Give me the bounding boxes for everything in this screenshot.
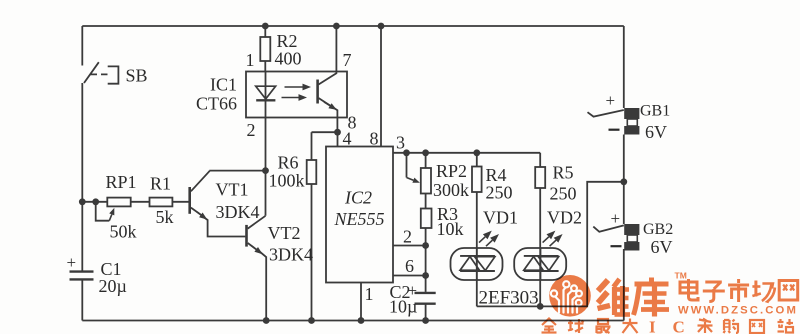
svg-text:8: 8 (370, 129, 379, 149)
svg-text:10µ: 10µ (389, 297, 417, 317)
svg-text:3: 3 (396, 133, 405, 153)
svg-text:IC2: IC2 (344, 188, 372, 208)
svg-text:IC1: IC1 (210, 75, 237, 95)
svg-text:CT66: CT66 (196, 94, 237, 114)
svg-text:6V: 6V (651, 237, 673, 257)
svg-text:7: 7 (343, 50, 352, 70)
svg-text:VT2: VT2 (268, 223, 301, 243)
svg-text:1: 1 (365, 284, 374, 304)
svg-text:VD2: VD2 (547, 208, 582, 228)
svg-text:6: 6 (405, 256, 414, 276)
svg-text:+: + (611, 209, 621, 228)
svg-text:R1: R1 (150, 174, 171, 194)
svg-text:GB2: GB2 (643, 221, 673, 238)
svg-text:3DK4: 3DK4 (216, 202, 260, 222)
svg-text:2EF303: 2EF303 (479, 288, 539, 309)
svg-text:R5: R5 (553, 163, 574, 183)
svg-text:1: 1 (246, 50, 255, 70)
svg-text:100k: 100k (269, 171, 305, 191)
svg-text:250: 250 (550, 184, 577, 204)
svg-text:250: 250 (486, 183, 513, 203)
svg-text:RP2: RP2 (436, 161, 467, 181)
svg-text:2: 2 (247, 120, 256, 140)
svg-text:VD1: VD1 (483, 208, 518, 228)
svg-text:400: 400 (275, 49, 302, 69)
svg-text:RP1: RP1 (106, 172, 137, 192)
svg-text:VT1: VT1 (216, 180, 249, 200)
svg-text:GB1: GB1 (640, 103, 670, 120)
svg-text:TM: TM (675, 271, 687, 281)
svg-text:WWW.DZSC.COM: WWW.DZSC.COM (678, 305, 798, 317)
svg-text:20µ: 20µ (99, 276, 127, 296)
svg-text:C: C (673, 318, 685, 334)
svg-text:5k: 5k (156, 207, 174, 227)
svg-text:NE555: NE555 (334, 209, 385, 229)
svg-text:10k: 10k (437, 219, 464, 239)
svg-text:+: + (67, 253, 77, 272)
svg-text:2: 2 (403, 227, 412, 247)
svg-text:+: + (606, 91, 616, 110)
svg-text:300k: 300k (433, 180, 469, 200)
svg-text:50k: 50k (110, 222, 137, 242)
svg-text:4: 4 (343, 129, 352, 149)
svg-text:3DK4: 3DK4 (269, 245, 313, 265)
svg-text:SB: SB (126, 66, 148, 86)
svg-text:6V: 6V (645, 122, 667, 142)
svg-text:I: I (649, 318, 656, 334)
svg-text:R6: R6 (278, 153, 299, 173)
